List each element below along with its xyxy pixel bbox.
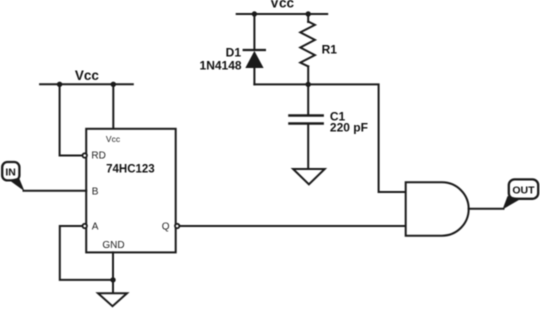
wire AND output	[469, 208, 504, 210]
svg-text:74HC123: 74HC123	[106, 164, 155, 176]
pin Q circle	[175, 224, 179, 228]
net Vcc (top) rail	[237, 13, 328, 15]
resistor R1	[300, 14, 315, 84]
svg-text:Vcc: Vcc	[75, 68, 100, 83]
ground symbol under U1	[98, 293, 127, 306]
svg-text:1N4148: 1N4148	[200, 59, 242, 73]
svg-text:220 pF: 220 pF	[330, 121, 368, 135]
node C1 junction	[306, 82, 311, 87]
svg-text:Q: Q	[162, 221, 170, 232]
wire IN to B pin	[24, 190, 87, 192]
node Vcc-left junction 1	[57, 82, 62, 87]
wire Q output to AND gate	[179, 225, 405, 227]
AND gate U2	[406, 182, 469, 235]
svg-text:Vcc: Vcc	[270, 0, 295, 11]
wire GND pin down	[112, 252, 114, 293]
node Vcc-left junction 2	[111, 82, 116, 87]
ground symbol under C1	[293, 169, 325, 184]
svg-text:A: A	[92, 222, 99, 233]
svg-text:B: B	[92, 187, 99, 198]
svg-text:IN: IN	[5, 167, 16, 179]
net Vcc (left) rail	[40, 83, 133, 85]
pin RD circle	[83, 153, 87, 157]
port IN flag	[2, 162, 24, 191]
capacitor C1	[289, 84, 322, 169]
wire Vcc to RD pin	[60, 84, 83, 155]
diode D1 1N4148	[244, 14, 265, 84]
wire node D1/R1/C1 horizontal	[254, 84, 405, 192]
svg-text:D1: D1	[226, 45, 242, 59]
svg-text:R1: R1	[322, 42, 338, 56]
pin A circle	[83, 224, 87, 228]
svg-text:Vcc: Vcc	[106, 134, 121, 144]
IC U1 74HC123 body	[86, 129, 176, 253]
node Vcc-top junction R1	[306, 11, 311, 16]
svg-text:GND: GND	[102, 240, 124, 251]
svg-text:OUT: OUT	[512, 185, 535, 197]
wire Vcc to U1 Vcc pin	[112, 84, 114, 129]
wire A pin loop to ground node	[60, 226, 113, 280]
node ground junction	[110, 277, 115, 282]
node Vcc-top junction D1	[252, 11, 257, 16]
svg-text:RD: RD	[91, 151, 105, 162]
port OUT flag	[503, 179, 539, 209]
